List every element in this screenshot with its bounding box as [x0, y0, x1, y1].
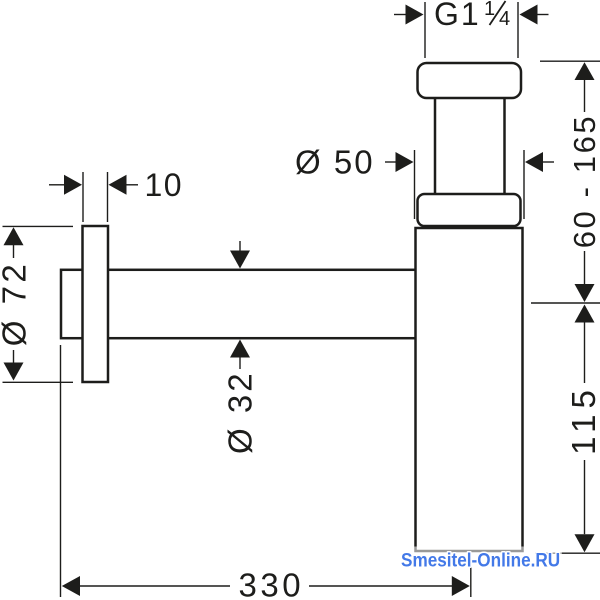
svg-text:Ø 32: Ø 32: [222, 370, 259, 454]
dimension D32 bottom arrow: [230, 340, 250, 370]
neck threaded inlet pipe: [435, 90, 505, 200]
dimension 10 right arrow: [109, 175, 139, 195]
dimension D50 extension line right: [523, 150, 525, 219]
dimension D50 right arrow: [525, 152, 554, 172]
dimension G 1 1/4 extension line right: [517, 2, 519, 58]
dimension D72 extension line bottom: [3, 381, 74, 383]
dimension label G 1 1/4: [434, 0, 510, 32]
dimension 60-165 down arrow: [575, 251, 595, 302]
dimension 115 extension line bottom: [535, 552, 600, 554]
dimension 60-165 extension line middle pipe axis: [531, 302, 600, 304]
wire pipe outlet tube horizontal: [61, 270, 416, 338]
dimension D72 extension line top: [3, 225, 74, 227]
svg-text:115: 115: [565, 384, 600, 455]
dimension 330 extension line left: [60, 345, 62, 597]
dimension 330 left arrow: [62, 576, 230, 596]
svg-text:Ø 50: Ø 50: [295, 144, 375, 181]
dimension 330 extension line right body axis: [470, 554, 472, 597]
dimension 330 right arrow: [309, 576, 470, 596]
svg-text:10: 10: [145, 167, 184, 203]
body trap cup: [416, 228, 523, 551]
watermark Smesitel-Online.RU: [399, 547, 562, 568]
dimension 60-165 up arrow: [575, 62, 595, 112]
dimension 10 extension line left: [82, 172, 84, 222]
svg-text:4: 4: [499, 8, 510, 30]
svg-text:330: 330: [239, 567, 305, 600]
dimension D50 left arrow: [385, 152, 414, 172]
dimension D50 extension line left: [414, 150, 416, 219]
dimension 10 left arrow: [49, 175, 82, 195]
dimension D72 bottom arrow: [4, 350, 24, 381]
dimension D32 top arrow: [230, 241, 250, 269]
dimension G 1 1/4 right arrow: [520, 5, 549, 25]
dimension G 1 1/4 extension line left: [424, 2, 426, 58]
svg-text:60 - 165: 60 - 165: [567, 114, 600, 249]
svg-text:1: 1: [484, 0, 495, 20]
dimension 115 down arrow: [575, 460, 595, 552]
wall flange escutcheon: [83, 226, 109, 382]
dimension 115 up arrow: [575, 305, 595, 384]
svg-text:Smesitel-Online.RU: Smesitel-Online.RU: [401, 548, 560, 570]
svg-text:Ø 72: Ø 72: [0, 261, 33, 347]
top cap nut: [418, 63, 522, 98]
dimension D72 top arrow: [4, 227, 24, 258]
svg-text:G1: G1: [434, 0, 481, 32]
dimension G 1 1/4 left arrow: [394, 5, 424, 25]
collar nut: [418, 194, 521, 226]
dimension 10 extension line right: [107, 172, 109, 222]
dimension 60-165 extension line top: [540, 60, 600, 62]
